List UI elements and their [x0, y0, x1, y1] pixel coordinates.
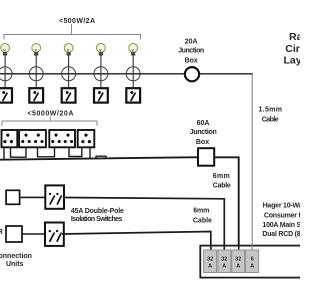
svg-text:Radial: Radial	[289, 31, 300, 43]
svg-text:Isolation Switches: Isolation Switches	[71, 216, 123, 223]
svg-text:A: A	[250, 264, 254, 270]
svg-text:6mm: 6mm	[213, 173, 230, 180]
svg-text:32: 32	[235, 256, 241, 262]
svg-text:R: R	[0, 229, 3, 236]
svg-text:1.5mm: 1.5mm	[258, 107, 282, 114]
svg-text:A: A	[222, 264, 226, 270]
svg-text:Units: Units	[6, 261, 24, 268]
svg-text:6mm: 6mm	[193, 208, 209, 215]
svg-text:A: A	[236, 264, 240, 270]
svg-text:<500W/2A: <500W/2A	[59, 18, 95, 25]
svg-text:Junction: Junction	[178, 48, 204, 55]
svg-text:Consumer Unit: Consumer Unit	[264, 212, 300, 219]
svg-text:32: 32	[207, 256, 213, 262]
svg-text:Circuit: Circuit	[285, 43, 300, 55]
svg-text:Box: Box	[196, 139, 209, 146]
svg-text:60A: 60A	[197, 120, 210, 127]
svg-text:Box: Box	[185, 58, 198, 65]
svg-text:Cable: Cable	[262, 117, 279, 124]
svg-text:Hager 10-Way: Hager 10-Way	[263, 203, 300, 210]
svg-text:<5000W/20A: <5000W/20A	[27, 110, 73, 117]
svg-text:Cable: Cable	[193, 218, 212, 225]
svg-text:Connection: Connection	[0, 253, 32, 260]
svg-text:100A Main Switch: 100A Main Switch	[262, 222, 300, 229]
svg-text:45A Double-Pole: 45A Double-Pole	[71, 208, 124, 215]
svg-text:Layout: Layout	[284, 55, 301, 67]
svg-text:Junction: Junction	[190, 129, 217, 136]
svg-text:Dual RCD (80A): Dual RCD (80A)	[262, 231, 300, 238]
svg-text:A: A	[208, 264, 212, 270]
svg-text:6: 6	[251, 256, 254, 262]
svg-text:32: 32	[221, 256, 227, 262]
svg-text:20A: 20A	[185, 39, 198, 46]
svg-text:Cable: Cable	[213, 183, 231, 190]
